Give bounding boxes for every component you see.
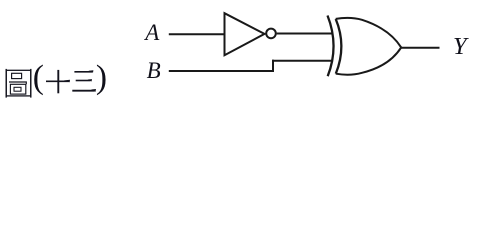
inverter U1 triangle [225, 13, 265, 55]
caption open paren [33, 61, 44, 95]
wire A input [169, 33, 225, 35]
XOR gate U2 body outline [336, 18, 402, 75]
wire inverter output to XOR [277, 33, 333, 35]
XOR gate U2 extra input arc [328, 16, 334, 77]
caption char 圖 [6, 69, 31, 98]
wire B step vertical [272, 60, 274, 72]
node label B [147, 59, 161, 82]
inverter U1 bubble [266, 29, 276, 39]
node label A [145, 21, 159, 44]
wire Y output [401, 47, 439, 49]
wire B upper horizontal to XOR [272, 60, 332, 62]
caption char 三 [72, 70, 96, 92]
caption close paren [96, 61, 107, 95]
XOR gate U2 back arc [336, 19, 342, 74]
wire B input horizontal [169, 70, 274, 72]
caption char 十 [46, 70, 70, 93]
node label Y [453, 35, 467, 60]
